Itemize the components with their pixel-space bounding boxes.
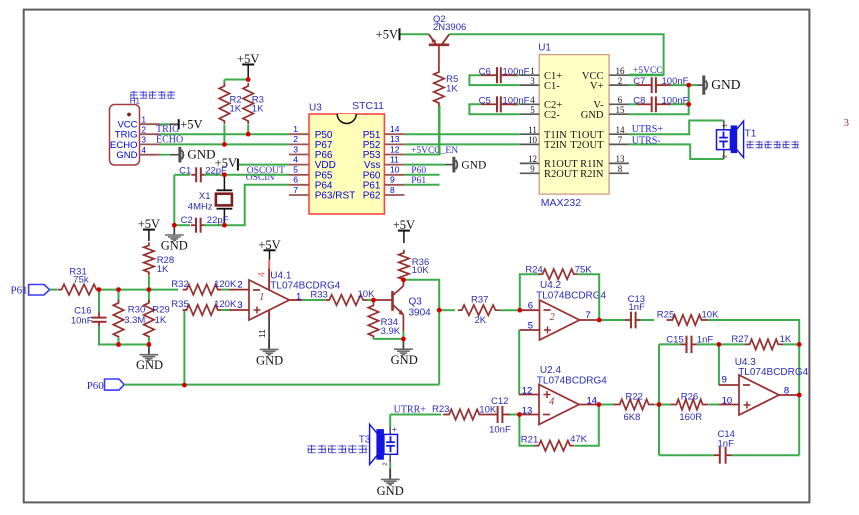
svg-text:T2IN: T2IN (544, 140, 567, 151)
svg-text:R25: R25 (657, 310, 674, 321)
svg-text:GND: GND (377, 484, 404, 498)
svg-text:GND: GND (391, 353, 418, 367)
svg-text:14: 14 (616, 125, 626, 135)
svg-text:12: 12 (390, 144, 400, 154)
svg-text:11: 11 (528, 125, 537, 135)
svg-text:T3: T3 (359, 434, 371, 445)
svg-text:C15: C15 (666, 335, 683, 346)
svg-text:C2: C2 (181, 215, 193, 226)
svg-text:R27: R27 (731, 334, 748, 345)
svg-text:GND: GND (256, 353, 283, 367)
svg-text:3904: 3904 (409, 307, 432, 318)
svg-text:C7: C7 (633, 76, 645, 87)
svg-text:R21: R21 (521, 435, 538, 446)
svg-text:X1: X1 (199, 191, 211, 202)
svg-text:P61: P61 (11, 285, 28, 297)
svg-text:13: 13 (390, 134, 400, 144)
svg-text:UTRS+: UTRS+ (632, 124, 664, 135)
svg-text:47K: 47K (570, 434, 588, 445)
svg-text:1: 1 (293, 124, 298, 134)
svg-text:C12: C12 (491, 396, 508, 407)
svg-text:5: 5 (528, 320, 533, 331)
svg-text:R23: R23 (432, 404, 449, 415)
svg-text:P61: P61 (411, 176, 426, 186)
svg-text:TL074BCDRG4: TL074BCDRG4 (270, 281, 340, 292)
svg-text:P60: P60 (411, 166, 426, 176)
svg-text:4MHz: 4MHz (188, 202, 213, 213)
svg-text:8: 8 (390, 185, 395, 195)
svg-text:1K: 1K (780, 334, 792, 345)
svg-text:10nF: 10nF (71, 315, 93, 326)
svg-text:14: 14 (587, 395, 598, 406)
svg-text:2K: 2K (475, 315, 487, 326)
svg-text:C8: C8 (633, 95, 645, 106)
svg-text:1nF: 1nF (697, 335, 714, 346)
svg-text:10K: 10K (702, 310, 720, 321)
svg-text:R24: R24 (525, 265, 542, 276)
svg-text:GND: GND (581, 110, 604, 121)
svg-text:9: 9 (390, 175, 395, 185)
svg-text:3: 3 (530, 76, 535, 86)
svg-text:1K: 1K (155, 315, 167, 326)
svg-text:+5VCC_EN: +5VCC_EN (411, 146, 458, 156)
svg-text:120K: 120K (214, 299, 237, 310)
svg-text:1: 1 (259, 292, 264, 303)
svg-text:9: 9 (530, 164, 535, 174)
svg-text:1: 1 (530, 66, 535, 76)
svg-text:R2OUT: R2OUT (544, 169, 578, 180)
svg-text:TL074BCDRG4: TL074BCDRG4 (537, 375, 607, 386)
svg-text:+5VCC: +5VCC (633, 66, 663, 76)
svg-text:3: 3 (142, 136, 147, 145)
svg-text:STC11: STC11 (352, 100, 384, 112)
svg-text:4: 4 (549, 397, 554, 408)
svg-text:Q3: Q3 (409, 296, 423, 307)
svg-text:6: 6 (293, 175, 298, 185)
svg-text:GND: GND (711, 77, 740, 92)
svg-text:2: 2 (618, 76, 623, 86)
svg-text:P63/RST: P63/RST (315, 191, 356, 202)
svg-text:11: 11 (390, 154, 399, 164)
svg-text:C2-: C2- (544, 110, 560, 121)
svg-text:7: 7 (618, 135, 623, 145)
svg-text:T1: T1 (745, 129, 757, 140)
svg-text:R32: R32 (171, 279, 188, 290)
svg-text:TL074BCDRG4: TL074BCDRG4 (738, 367, 808, 378)
svg-text:1K: 1K (157, 264, 169, 275)
svg-text:GND: GND (116, 150, 137, 161)
svg-text:1: 1 (723, 124, 729, 127)
svg-text:1: 1 (296, 291, 301, 302)
svg-text:2N3906: 2N3906 (433, 22, 466, 33)
svg-text:V+: V+ (590, 81, 604, 92)
svg-text:3: 3 (237, 300, 242, 311)
svg-text:4: 4 (293, 154, 298, 164)
svg-text:+5V: +5V (180, 117, 202, 131)
svg-text:C6: C6 (479, 66, 491, 77)
svg-text:1K: 1K (252, 103, 264, 114)
svg-text:12: 12 (522, 386, 533, 397)
svg-text:10: 10 (722, 396, 733, 407)
svg-text:2: 2 (142, 125, 147, 134)
svg-text:75k: 75k (73, 274, 89, 285)
svg-text:7: 7 (585, 310, 590, 321)
svg-text:13: 13 (522, 406, 533, 417)
svg-text:75K: 75K (575, 265, 593, 276)
svg-text:5: 5 (293, 165, 298, 175)
svg-text:U3: U3 (309, 103, 322, 114)
svg-text:U4.2: U4.2 (540, 280, 562, 291)
svg-text:10nF: 10nF (489, 425, 511, 436)
svg-text:GND: GND (461, 160, 486, 172)
svg-text:16: 16 (616, 66, 626, 76)
svg-text:UTRS-: UTRS- (632, 136, 661, 147)
svg-text:P60: P60 (87, 380, 105, 392)
svg-text:ECHO: ECHO (156, 134, 183, 145)
svg-text:R37: R37 (471, 294, 488, 305)
svg-text:U1: U1 (538, 43, 551, 54)
svg-text:8: 8 (618, 164, 623, 174)
svg-text:R2IN: R2IN (580, 169, 604, 180)
svg-text:6K8: 6K8 (624, 412, 641, 423)
svg-text:GND: GND (161, 238, 188, 252)
svg-text:2: 2 (550, 312, 555, 323)
svg-text:R29: R29 (152, 305, 169, 316)
svg-text:R26: R26 (681, 392, 698, 403)
svg-text:+5V: +5V (376, 28, 398, 42)
svg-text:5: 5 (530, 105, 535, 115)
svg-text:10K: 10K (412, 265, 430, 276)
svg-text:6: 6 (618, 95, 623, 105)
svg-text:14: 14 (390, 124, 400, 134)
svg-text:R35: R35 (171, 299, 188, 310)
svg-text:C1: C1 (179, 165, 191, 176)
svg-text:1: 1 (142, 115, 147, 124)
svg-text:11: 11 (257, 329, 267, 338)
svg-text:160R: 160R (679, 412, 702, 423)
svg-text:4: 4 (142, 146, 147, 155)
svg-text:2: 2 (383, 462, 389, 465)
svg-text:1nF: 1nF (629, 302, 646, 313)
svg-text:MAX232: MAX232 (541, 197, 581, 209)
svg-text:100nF: 100nF (662, 95, 689, 106)
svg-text:10: 10 (390, 165, 400, 175)
svg-text:12: 12 (528, 154, 537, 164)
svg-text:U2.4: U2.4 (540, 365, 562, 376)
svg-text:+: + (392, 425, 397, 434)
svg-text:2: 2 (237, 280, 242, 291)
svg-text:4: 4 (256, 272, 266, 277)
svg-text:H1: H1 (130, 97, 141, 106)
svg-text:3: 3 (293, 144, 298, 154)
svg-text:6: 6 (528, 300, 533, 311)
svg-text:3: 3 (844, 117, 850, 129)
svg-text:C1-: C1- (544, 81, 560, 92)
svg-text:GND: GND (136, 358, 163, 372)
svg-text:P62: P62 (363, 191, 381, 202)
svg-text:2: 2 (723, 155, 729, 158)
svg-text:100nF: 100nF (662, 76, 689, 87)
svg-text:UTRR+: UTRR+ (394, 404, 427, 415)
svg-text:100nF: 100nF (503, 66, 530, 77)
svg-text:R22: R22 (626, 392, 643, 403)
svg-text:7: 7 (293, 185, 298, 195)
svg-text:R33: R33 (310, 290, 327, 301)
svg-text:10: 10 (528, 135, 538, 145)
svg-text:15: 15 (616, 105, 626, 115)
svg-text:1K: 1K (230, 103, 242, 114)
svg-text:GND: GND (187, 147, 215, 162)
svg-text:120K: 120K (214, 279, 237, 290)
svg-text:1K: 1K (446, 83, 458, 94)
svg-text:2: 2 (293, 134, 298, 144)
svg-text:3.9K: 3.9K (381, 326, 401, 337)
svg-text:13: 13 (616, 154, 626, 164)
svg-text:4: 4 (530, 95, 535, 105)
svg-text:8: 8 (784, 386, 789, 397)
svg-text:T2OUT: T2OUT (570, 140, 604, 151)
svg-text:C5: C5 (479, 95, 491, 106)
svg-text:R30: R30 (128, 305, 145, 316)
svg-text:1nF: 1nF (718, 438, 735, 449)
svg-text:TL074BCDRG4: TL074BCDRG4 (536, 291, 606, 302)
svg-text:100nF: 100nF (503, 95, 530, 106)
svg-text:9: 9 (722, 374, 727, 385)
